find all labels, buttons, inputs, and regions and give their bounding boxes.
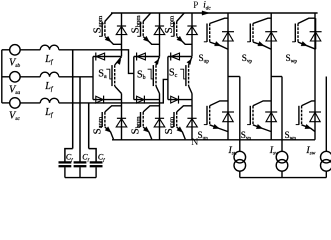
wire Sb left vertical phase node (133, 57, 135, 100)
wire Sapm collector (105, 13, 113, 22)
N rail negative dc link (112, 139, 315, 141)
diode Dcp top (187, 26, 198, 35)
wire Scnm emitter (177, 127, 186, 139)
igbt Sanm rectifier a bottom (99, 112, 105, 127)
arrow Sb emitter (154, 59, 159, 65)
wire Sb collector down (156, 86, 160, 100)
label Isu (228, 145, 237, 157)
leg w rail-end vertical (314, 13, 316, 77)
diode Sa lower cathode-right (96, 96, 104, 104)
diode Dvp (265, 32, 277, 41)
wire I_sw bottom (325, 171, 327, 177)
wire output bottom bus (240, 177, 326, 179)
wire phase a feed (59, 76, 93, 78)
wire Sanm emitter (105, 127, 114, 139)
wire cap tap phase c (88, 103, 90, 149)
wire Sb top branch (134, 56, 160, 58)
wire Sbnm collector (143, 106, 159, 112)
wire Sc gate lead (180, 69, 186, 79)
igbt Swn (296, 106, 302, 125)
wire Sa collector down (115, 86, 122, 100)
leg v lower vertical (270, 77, 272, 140)
node column b lower vertical (159, 100, 161, 140)
label Isw (305, 145, 315, 157)
wire leg u output tap (239, 77, 241, 152)
diode Dan bottom (116, 118, 127, 127)
node column a lower vertical (121, 100, 123, 140)
wire Sa gate lead (106, 69, 112, 79)
current source I_sw (321, 151, 331, 171)
leg u lower vertical (227, 77, 229, 140)
diode Dun (222, 112, 234, 122)
label Sb (137, 69, 146, 81)
igbt Sbnm rectifier b bottom (137, 112, 143, 127)
diode Dcn bottom (187, 118, 198, 127)
diode Dbp top (154, 26, 165, 35)
voltage source Vsb (10, 45, 21, 56)
arrow Sc emitter (187, 59, 192, 65)
label Vsa (9, 84, 20, 96)
inductor Lf phase c (40, 98, 59, 103)
wire Sapm emitter (105, 37, 122, 45)
igbt Svp (247, 24, 253, 43)
wire Scpm emitter (177, 37, 192, 45)
P rail positive dc link (111, 12, 318, 14)
capacitor Cf a (74, 162, 87, 166)
igbt Sup (204, 24, 210, 43)
diode Dwn (309, 112, 321, 122)
arrow Svn emitter (256, 124, 262, 129)
label Svp (242, 53, 253, 65)
wire Sun emitter (210, 125, 228, 132)
diode Sb upper cathode-left (137, 53, 146, 61)
wire Sc bottom branch (168, 99, 192, 101)
wire Cf a bottom (79, 167, 81, 177)
wire Sa emitter up (115, 57, 122, 65)
wire Svn collector (253, 101, 271, 106)
wire phase c feed (59, 79, 168, 103)
diode Dap top (116, 26, 127, 35)
arrow Sbnm emitter (143, 127, 149, 133)
label Sa (98, 68, 107, 80)
igbt Sb bidirectional cell (153, 65, 156, 86)
igbt Sun (204, 106, 210, 125)
wire Svn emitter (253, 125, 271, 132)
wire Sun collector (210, 101, 228, 106)
label idc (203, 0, 211, 11)
label Lf a (44, 81, 54, 93)
wire Sb emitter up (156, 57, 160, 65)
node column c upper vertical (191, 13, 193, 57)
wire leg v output step (271, 76, 282, 78)
arrow Sbpm emitter (143, 36, 149, 42)
wire cap bottom bus (65, 177, 96, 179)
label Cf c (98, 153, 105, 163)
wire Vsa to Lf (20, 76, 40, 78)
wire source Vsb stub (2, 49, 10, 51)
label Cf b (66, 153, 73, 163)
wire leg w output step (314, 76, 316, 78)
wire Sa top branch (93, 56, 122, 58)
wire Swp collector (298, 18, 315, 23)
wire source star vertical (1, 50, 3, 103)
label Sc (169, 67, 178, 79)
label Svn (241, 130, 252, 142)
label P (193, 0, 198, 10)
arrow Svp emitter (258, 41, 264, 45)
inductor Lf phase a (40, 72, 59, 77)
igbt Scnm rectifier c bottom (171, 112, 177, 127)
wire Svp emitter (253, 42, 271, 49)
label Vsb (9, 57, 20, 69)
node column a upper vertical (121, 13, 123, 57)
leg w lower vertical (314, 77, 316, 140)
wire Sc left vertical phase node (167, 57, 169, 100)
label Sun (198, 130, 209, 142)
diode Dbn bottom (154, 118, 165, 127)
diode Dup (222, 32, 234, 41)
diode Sb lower cathode-right (137, 96, 145, 104)
wire Swn collector (302, 101, 316, 106)
capacitor Cf b (59, 162, 72, 166)
inductor Lf phase b (40, 45, 59, 50)
wire leg v output tap (281, 77, 283, 152)
wire leg u output step (228, 76, 240, 78)
wire Sc collector down (189, 86, 192, 100)
label Scpm (163, 15, 175, 33)
igbt Sa bidirectional cell (112, 65, 115, 86)
wire Sa left vertical phase node (92, 57, 94, 100)
label Swn (285, 130, 297, 142)
wire Sb gate lead (148, 69, 154, 79)
wire Sup emitter (210, 42, 228, 49)
arrow Swp emitter (301, 41, 307, 45)
wire Swp emitter (298, 42, 316, 49)
wire leg w output tap (325, 77, 327, 152)
wire phase b feed (59, 50, 134, 74)
wire Sbnm emitter (143, 127, 152, 139)
wire Sanm collector (105, 106, 122, 112)
wire Vsc to Lf (20, 102, 40, 104)
arrow Scnm emitter (177, 127, 183, 133)
leg u upper vertical (227, 13, 229, 77)
wire Sc emitter up (189, 57, 192, 65)
label Vsc (9, 111, 20, 123)
current source I_su (234, 151, 246, 171)
capacitor Cf c (90, 162, 103, 166)
wire Sbpm emitter (143, 37, 159, 45)
voltage source Vsc (10, 98, 21, 109)
wire Sc top branch (168, 56, 192, 58)
diode Dwp on stub (310, 18, 322, 49)
igbt Sbpm rectifier b top (137, 22, 143, 37)
wire Scpm collector (177, 13, 185, 22)
arrow Sapm emitter (105, 36, 111, 42)
arrow Swn emitter (305, 124, 311, 129)
igbt Sapm rectifier a top (99, 22, 105, 37)
label N (191, 137, 198, 148)
wire Sup collector (210, 18, 228, 23)
label Sup (199, 53, 210, 65)
voltage source Vsa (10, 72, 21, 83)
wire Sbpm collector (143, 13, 151, 22)
wire Scnm collector (177, 106, 192, 112)
arrow Scpm emitter (177, 36, 183, 42)
wire source Vsa stub (2, 76, 10, 78)
igbt Swp (292, 24, 298, 43)
igbt Sc bidirectional cell (186, 65, 189, 86)
svg-text:P: P (193, 0, 198, 10)
dc-link current arrow (202, 11, 210, 15)
label Sapm (91, 15, 103, 33)
wire Swn emitter (302, 125, 316, 132)
label Lf c (44, 107, 54, 119)
label Swp (286, 53, 298, 65)
diode Sc lower cathode-right (171, 96, 179, 104)
diode Sa upper cathode-left (96, 53, 105, 61)
label Isv (269, 145, 278, 157)
arrow Sup emitter (214, 41, 220, 45)
current source I_sv (276, 151, 288, 171)
label Scnm (163, 116, 175, 134)
wire cap tap jog c (89, 149, 96, 163)
label Sbnm (130, 116, 142, 135)
leg v upper vertical (270, 13, 272, 77)
diode Dvn (265, 112, 277, 122)
diode Sc upper cathode-left (171, 53, 180, 61)
wire cap tap phase b (72, 50, 74, 149)
wire cap tap jog b (65, 149, 73, 163)
wire Cf b bottom (64, 167, 66, 177)
wire cap tap phase a (79, 77, 81, 163)
wire Vsb to Lf (20, 49, 40, 51)
arrow Sanm emitter (105, 127, 111, 133)
igbt Scpm rectifier c top (171, 22, 177, 37)
label Lf b (44, 54, 54, 66)
igbt Svn (247, 106, 253, 125)
wire source Vsc stub (2, 102, 10, 104)
node column b upper vertical (159, 13, 161, 57)
node column c lower vertical (191, 100, 193, 140)
wire Cf c bottom (95, 167, 97, 177)
arrow Sun emitter (213, 124, 219, 129)
wire Sb bottom branch (134, 99, 160, 101)
wire Sa bottom branch (93, 99, 122, 101)
wire I_su bottom (239, 171, 241, 177)
label Sbpm (130, 15, 142, 34)
wire Svp collector (253, 18, 271, 23)
arrow Sa emitter (116, 59, 121, 65)
label Cf a (82, 153, 89, 163)
wire I_sv bottom (281, 171, 283, 177)
label Sanm (91, 116, 103, 134)
